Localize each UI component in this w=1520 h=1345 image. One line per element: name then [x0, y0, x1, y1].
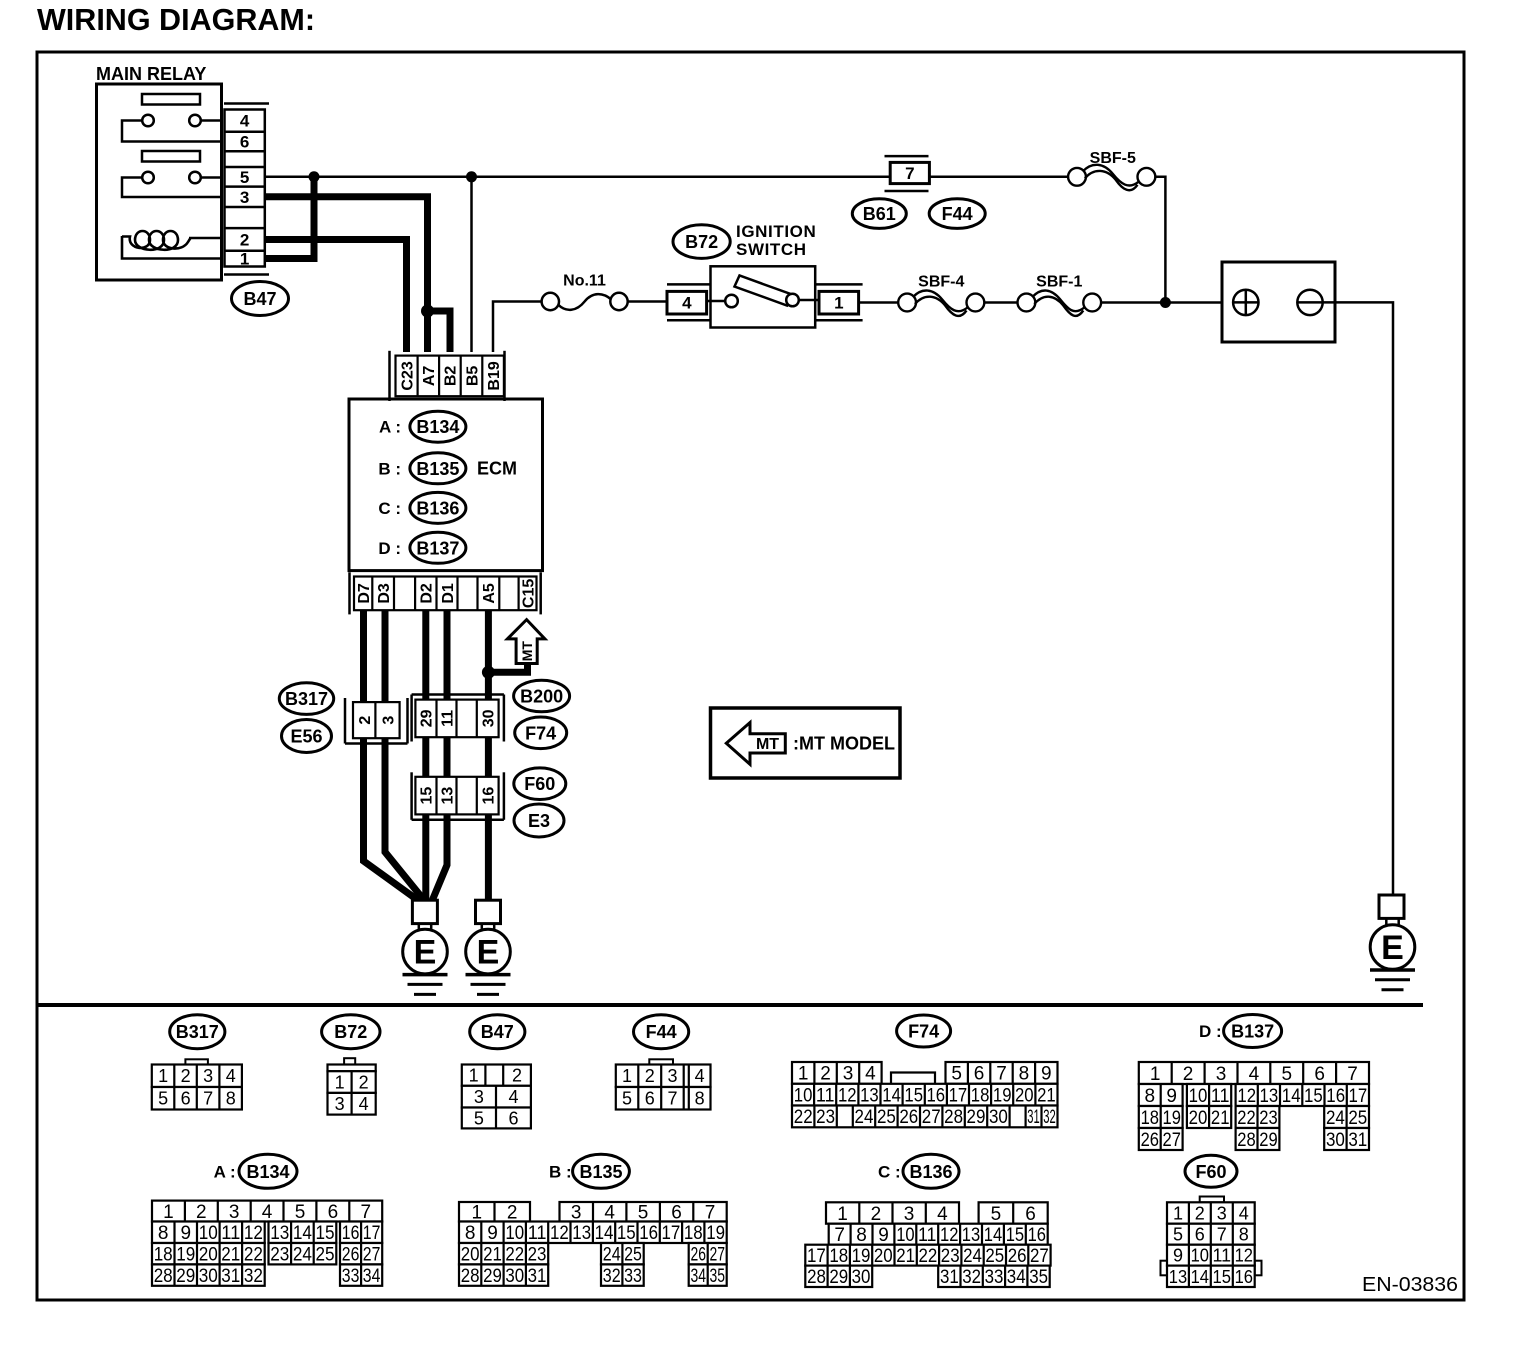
svg-text:14: 14 — [1282, 1086, 1301, 1107]
svg-text:2: 2 — [820, 1064, 831, 1085]
ground E middle — [476, 900, 501, 923]
svg-text:15: 15 — [617, 1223, 636, 1244]
svg-text:1: 1 — [1150, 1064, 1161, 1085]
pinout B136 connector — [826, 1202, 959, 1223]
svg-text:1: 1 — [798, 1064, 809, 1085]
svg-text:3: 3 — [1216, 1064, 1227, 1085]
ECM top connector shell — [388, 351, 391, 401]
svg-text:B137: B137 — [1231, 1022, 1274, 1042]
svg-text:9: 9 — [487, 1223, 498, 1244]
svg-text:14: 14 — [882, 1086, 901, 1107]
svg-text:D1: D1 — [440, 583, 457, 604]
connector pin 4 of ignition switch — [667, 283, 711, 286]
svg-text:EN-03836: EN-03836 — [1362, 1274, 1458, 1296]
wire D1 to ground E — [432, 610, 447, 901]
svg-text:B72: B72 — [334, 1022, 367, 1042]
svg-text:31: 31 — [221, 1266, 240, 1287]
svg-text:18: 18 — [829, 1246, 848, 1267]
pinout B137 connector — [1139, 1062, 1369, 1084]
svg-text:30: 30 — [1326, 1130, 1345, 1151]
svg-text:13: 13 — [1169, 1267, 1187, 1287]
svg-text:32: 32 — [603, 1266, 621, 1287]
svg-text:26: 26 — [690, 1245, 706, 1266]
svg-text:12: 12 — [1237, 1086, 1256, 1107]
ECM top connector strip C23 A7 B2 B5 B19 — [396, 356, 504, 397]
relay contact 1 terminals — [142, 115, 154, 127]
svg-text:15: 15 — [315, 1223, 334, 1244]
pinout F74 callout — [897, 1015, 951, 1047]
wire pin5 B+ line — [265, 176, 890, 179]
ground E right — [1379, 895, 1404, 918]
svg-text:20: 20 — [1189, 1108, 1208, 1129]
svg-text:16: 16 — [1028, 1225, 1046, 1246]
svg-text:20: 20 — [874, 1246, 893, 1267]
svg-text:SWITCH: SWITCH — [736, 240, 807, 259]
svg-text:21: 21 — [896, 1246, 915, 1267]
svg-text:A :: A : — [379, 418, 401, 437]
svg-text:B :: B : — [378, 459, 401, 478]
wire MT branch — [488, 665, 527, 672]
svg-text:16: 16 — [639, 1223, 658, 1244]
svg-text:29: 29 — [483, 1266, 502, 1287]
callout B200 — [514, 680, 570, 712]
svg-text:4: 4 — [695, 1066, 705, 1086]
svg-text:1: 1 — [834, 294, 843, 313]
relay contact 2 terminals — [142, 172, 154, 184]
svg-text:F60: F60 — [1195, 1162, 1226, 1182]
svg-text:34: 34 — [690, 1266, 706, 1287]
svg-text:11: 11 — [528, 1223, 547, 1244]
svg-text:A :: A : — [214, 1162, 236, 1181]
wire SBF-1 to battery — [1101, 301, 1222, 304]
svg-text:6: 6 — [1314, 1064, 1325, 1085]
svg-text:B317: B317 — [285, 689, 328, 709]
pinout B317 callout — [170, 1015, 225, 1049]
svg-text:SBF-1: SBF-1 — [1036, 274, 1082, 291]
connector pin 1 of ignition switch — [815, 283, 862, 286]
connector pin 7 in B+ line — [885, 155, 929, 158]
svg-text:3: 3 — [229, 1202, 240, 1223]
ignition switch contacts — [725, 295, 738, 308]
svg-text:28: 28 — [461, 1266, 480, 1287]
svg-text:B135: B135 — [416, 459, 459, 479]
svg-text:6: 6 — [645, 1089, 655, 1109]
svg-text:1: 1 — [163, 1202, 174, 1223]
svg-text:3: 3 — [474, 1087, 484, 1107]
svg-text:9: 9 — [1041, 1064, 1052, 1085]
svg-text:32: 32 — [244, 1266, 263, 1287]
svg-text:F74: F74 — [908, 1022, 939, 1042]
svg-text:5: 5 — [991, 1204, 1002, 1225]
svg-text:E: E — [477, 934, 500, 972]
pinout F44 callout — [634, 1015, 689, 1049]
svg-text:10: 10 — [1189, 1086, 1208, 1107]
svg-text:13: 13 — [439, 787, 456, 805]
ECM bottom connector shell — [348, 572, 351, 614]
callout B61 — [852, 199, 906, 229]
svg-text:5: 5 — [158, 1089, 168, 1109]
svg-text:B61: B61 — [863, 204, 896, 224]
svg-text:14: 14 — [293, 1223, 312, 1244]
connector B200/F74 pins 29 11 30 — [415, 700, 498, 738]
svg-text:22: 22 — [244, 1245, 263, 1266]
svg-text:4: 4 — [1239, 1204, 1249, 1224]
svg-text:4: 4 — [240, 112, 250, 131]
svg-text:B135: B135 — [579, 1162, 622, 1182]
svg-text:15: 15 — [1006, 1225, 1024, 1246]
svg-text:B136: B136 — [416, 498, 459, 518]
svg-text:19: 19 — [1163, 1108, 1181, 1129]
svg-text:9: 9 — [1173, 1246, 1183, 1266]
svg-text:13: 13 — [962, 1225, 980, 1246]
svg-text:14: 14 — [595, 1223, 614, 1244]
svg-text:4: 4 — [262, 1202, 273, 1223]
svg-text:B137: B137 — [416, 538, 459, 558]
svg-text:7: 7 — [996, 1064, 1007, 1085]
svg-text:25: 25 — [1348, 1108, 1367, 1129]
wire contact2 right to pin 5 — [200, 176, 222, 179]
wire D3 to ground E — [385, 610, 424, 900]
svg-text:D3: D3 — [376, 583, 393, 604]
svg-text:24: 24 — [963, 1246, 982, 1267]
svg-text:11: 11 — [816, 1086, 835, 1107]
pinout F60 connector — [1200, 1197, 1224, 1203]
svg-text:9: 9 — [878, 1225, 889, 1246]
svg-text:5: 5 — [474, 1108, 484, 1128]
svg-text:2: 2 — [871, 1204, 882, 1225]
wire battery to ground — [1335, 302, 1393, 895]
wire B+ to ECM B5 — [470, 177, 473, 352]
svg-text:MT: MT — [519, 641, 535, 662]
svg-text:21: 21 — [1037, 1086, 1056, 1107]
callout F60 — [514, 768, 566, 800]
wire D2 to ground E — [422, 610, 429, 900]
svg-text:20: 20 — [1015, 1086, 1034, 1107]
svg-text:D :: D : — [378, 539, 401, 558]
svg-text:24: 24 — [1326, 1108, 1345, 1129]
svg-text:4: 4 — [865, 1064, 876, 1085]
svg-text:2: 2 — [359, 1073, 369, 1093]
wire contact1 right to pin 4 — [200, 119, 222, 122]
svg-text:6: 6 — [240, 133, 249, 152]
svg-text:5: 5 — [1173, 1225, 1183, 1245]
svg-text:3: 3 — [335, 1094, 345, 1114]
svg-text:19: 19 — [852, 1246, 871, 1267]
svg-text:12: 12 — [838, 1086, 857, 1107]
svg-text:3: 3 — [667, 1066, 677, 1086]
svg-text:26: 26 — [1141, 1130, 1159, 1151]
callout F44 — [929, 199, 985, 229]
svg-text:3: 3 — [240, 188, 249, 207]
svg-text::MT MODEL: :MT MODEL — [793, 734, 895, 754]
wire switch contact to connector1 — [799, 299, 819, 302]
svg-text:10: 10 — [896, 1225, 914, 1246]
svg-text:28: 28 — [944, 1107, 963, 1128]
svg-text:D7: D7 — [356, 583, 373, 604]
svg-text:2: 2 — [1195, 1204, 1205, 1224]
svg-text:E56: E56 — [290, 727, 322, 747]
junction B5/B+ — [466, 171, 477, 182]
wire pin2 to ECM C23 — [265, 240, 407, 353]
svg-text:F44: F44 — [942, 204, 973, 224]
svg-text:A5: A5 — [481, 583, 498, 604]
relay contact 1 blade — [142, 94, 200, 105]
svg-text:18: 18 — [1141, 1108, 1159, 1129]
svg-text:F44: F44 — [646, 1022, 677, 1042]
svg-text:1: 1 — [837, 1204, 848, 1225]
svg-text:5: 5 — [240, 168, 249, 187]
relay connector pin strip — [225, 110, 265, 267]
svg-text:18: 18 — [154, 1245, 173, 1266]
svg-text:20: 20 — [461, 1245, 480, 1266]
wire SBF-4 to SBF-1 — [984, 301, 1017, 304]
svg-text:B72: B72 — [685, 232, 718, 252]
svg-text:25: 25 — [624, 1245, 642, 1266]
wire switch to SBF-4 — [859, 301, 899, 304]
svg-text:7: 7 — [1347, 1064, 1358, 1085]
MT model legend arrow — [726, 723, 785, 765]
svg-text:22: 22 — [505, 1245, 524, 1266]
svg-text:SBF-4: SBF-4 — [918, 274, 964, 291]
svg-text:7: 7 — [834, 1225, 845, 1246]
svg-text:C :: C : — [378, 499, 401, 518]
svg-text:15: 15 — [419, 787, 436, 805]
svg-text:6: 6 — [1025, 1204, 1036, 1225]
svg-text:23: 23 — [270, 1245, 289, 1266]
pinout F60 callout — [1185, 1155, 1237, 1187]
svg-text:32: 32 — [1043, 1107, 1056, 1128]
wire pin3 to ECM A7 — [265, 197, 428, 352]
svg-text:B134: B134 — [246, 1162, 289, 1182]
svg-text:14: 14 — [1191, 1267, 1209, 1287]
junction SBF-5/battery line — [1160, 297, 1171, 308]
svg-text:6: 6 — [974, 1064, 985, 1085]
wire pin1 to B+ junction — [265, 180, 314, 259]
relay coil L1 — [122, 231, 191, 250]
svg-text:1: 1 — [622, 1066, 632, 1086]
svg-text:2: 2 — [1183, 1064, 1194, 1085]
svg-text:B5: B5 — [464, 366, 481, 387]
svg-text:23: 23 — [816, 1107, 835, 1128]
svg-text:20: 20 — [199, 1245, 218, 1266]
svg-text:34: 34 — [1007, 1267, 1026, 1288]
junction pin1/B+ — [309, 171, 320, 182]
MT model legend box — [711, 708, 901, 778]
svg-text:6: 6 — [1195, 1225, 1205, 1245]
svg-text:8: 8 — [856, 1225, 867, 1246]
svg-text:C15: C15 — [520, 579, 537, 608]
svg-text:32: 32 — [962, 1267, 981, 1288]
ECM bottom connector strip D7 D3 D2 D1 A5 C15 — [354, 577, 537, 611]
svg-text:10: 10 — [199, 1223, 218, 1244]
callout E56 — [282, 720, 332, 753]
connector B317/E56 shell — [344, 698, 347, 744]
svg-text:16: 16 — [342, 1223, 360, 1244]
svg-text:21: 21 — [483, 1245, 502, 1266]
pinout B47 connector — [462, 1065, 531, 1086]
pinout B47 callout — [470, 1015, 525, 1049]
svg-text:8: 8 — [1019, 1064, 1030, 1085]
svg-text:10: 10 — [794, 1086, 813, 1107]
svg-text:6: 6 — [328, 1202, 339, 1223]
separator line — [37, 1003, 1423, 1007]
svg-text:B134: B134 — [416, 417, 459, 437]
svg-text:IGNITION: IGNITION — [736, 222, 816, 241]
svg-text:9: 9 — [181, 1223, 192, 1244]
svg-text:ECM: ECM — [477, 459, 517, 479]
svg-text:10: 10 — [1191, 1246, 1209, 1266]
svg-text:5: 5 — [951, 1064, 962, 1085]
callout B317 — [279, 683, 333, 715]
svg-text:23: 23 — [528, 1245, 547, 1266]
svg-text:F60: F60 — [524, 774, 555, 794]
junction A5/MT — [482, 666, 495, 679]
svg-text:1: 1 — [335, 1073, 345, 1093]
svg-text:E3: E3 — [528, 811, 550, 831]
pinout B134 connector — [152, 1201, 382, 1222]
svg-text:E: E — [414, 934, 437, 972]
svg-text:3: 3 — [380, 716, 397, 725]
ignition switch callout B72 — [673, 225, 730, 259]
svg-text:11: 11 — [918, 1225, 936, 1246]
svg-text:31: 31 — [940, 1267, 959, 1288]
svg-text:10: 10 — [505, 1223, 524, 1244]
svg-text:16: 16 — [1235, 1267, 1253, 1287]
svg-text:31: 31 — [1027, 1107, 1039, 1128]
svg-text:34: 34 — [363, 1266, 381, 1287]
svg-text:4: 4 — [508, 1087, 518, 1107]
svg-text:B47: B47 — [243, 289, 276, 309]
svg-text:27: 27 — [363, 1245, 381, 1266]
pinout B135 connector — [459, 1202, 530, 1222]
pinout B72 connector — [344, 1058, 355, 1064]
svg-text:15: 15 — [904, 1086, 923, 1107]
connector B317/E56 pins 2 3 — [353, 702, 400, 738]
svg-text:1: 1 — [469, 1066, 479, 1086]
svg-text:22: 22 — [919, 1246, 938, 1267]
svg-text:MT: MT — [756, 736, 779, 753]
svg-text:1: 1 — [1173, 1204, 1183, 1224]
svg-text:30: 30 — [852, 1267, 871, 1288]
svg-text:11: 11 — [1211, 1086, 1230, 1107]
svg-text:21: 21 — [221, 1245, 240, 1266]
svg-text:21: 21 — [1211, 1108, 1230, 1129]
svg-text:B47: B47 — [481, 1022, 514, 1042]
svg-text:11: 11 — [439, 710, 456, 727]
svg-text:26: 26 — [899, 1107, 918, 1128]
svg-text:23: 23 — [1259, 1108, 1277, 1129]
ground E left — [412, 900, 437, 923]
svg-text:31: 31 — [528, 1266, 547, 1287]
svg-text:12: 12 — [940, 1225, 958, 1246]
svg-text:25: 25 — [315, 1245, 334, 1266]
svg-text:31: 31 — [1348, 1130, 1367, 1151]
svg-text:B136: B136 — [909, 1162, 952, 1182]
svg-text:11: 11 — [1213, 1246, 1232, 1266]
svg-text:B2: B2 — [443, 366, 460, 387]
svg-text:17: 17 — [662, 1223, 681, 1244]
svg-text:29: 29 — [967, 1107, 986, 1128]
wire branch to ECM B2 — [428, 311, 451, 352]
relay contact 2 blade — [142, 151, 200, 162]
svg-text:14: 14 — [984, 1225, 1003, 1246]
wire fuse No.11 to connector 4 — [628, 300, 667, 303]
svg-text:2: 2 — [645, 1066, 655, 1086]
svg-text:8: 8 — [158, 1223, 169, 1244]
svg-text:WIRING DIAGRAM:: WIRING DIAGRAM: — [37, 2, 315, 37]
svg-text:26: 26 — [342, 1245, 360, 1266]
svg-text:6: 6 — [508, 1108, 518, 1128]
svg-text:19: 19 — [993, 1086, 1012, 1107]
ignition switch SW1 box — [711, 266, 816, 327]
svg-text:12: 12 — [244, 1223, 263, 1244]
relay K1 box — [97, 84, 222, 280]
svg-text:F74: F74 — [525, 723, 556, 743]
wire connector4 to switch contact — [707, 300, 726, 303]
svg-text:1: 1 — [158, 1066, 168, 1086]
svg-text:4: 4 — [937, 1204, 948, 1225]
wire SBF-5 to corner — [1155, 177, 1165, 303]
svg-text:B200: B200 — [520, 687, 563, 707]
svg-text:4: 4 — [1249, 1064, 1260, 1085]
svg-text:15: 15 — [1304, 1086, 1323, 1107]
svg-text:A7: A7 — [421, 366, 438, 387]
svg-text:16: 16 — [927, 1086, 946, 1107]
svg-text:12: 12 — [550, 1223, 569, 1244]
svg-text:7: 7 — [1217, 1225, 1227, 1245]
svg-text:28: 28 — [154, 1266, 173, 1287]
svg-text:3: 3 — [904, 1204, 915, 1225]
junction A7/B2 split — [421, 305, 434, 318]
wire coil left to pin 1 — [122, 236, 222, 259]
svg-text:3: 3 — [1217, 1204, 1227, 1224]
svg-text:MAIN RELAY: MAIN RELAY — [96, 64, 206, 84]
svg-text:5: 5 — [1282, 1064, 1293, 1085]
svg-text:3: 3 — [843, 1064, 854, 1085]
relay connector shell — [224, 102, 269, 105]
svg-text:C :: C : — [878, 1162, 901, 1181]
svg-text:35: 35 — [1029, 1267, 1048, 1288]
connector F60/E3 shell — [410, 772, 413, 820]
pinout F44 connector — [649, 1059, 673, 1065]
pinout F74 connector — [792, 1062, 882, 1084]
svg-text:2: 2 — [196, 1202, 207, 1223]
svg-text:29: 29 — [1259, 1130, 1277, 1151]
svg-text:26: 26 — [1008, 1246, 1027, 1267]
svg-text:22: 22 — [794, 1107, 813, 1128]
svg-text:29: 29 — [176, 1266, 195, 1287]
svg-text:33: 33 — [342, 1266, 360, 1287]
svg-text:4: 4 — [226, 1066, 236, 1086]
svg-text:13: 13 — [1260, 1086, 1279, 1107]
svg-text:17: 17 — [363, 1223, 381, 1244]
svg-text:8: 8 — [695, 1089, 705, 1109]
svg-text:19: 19 — [706, 1223, 725, 1244]
svg-text:12: 12 — [1235, 1246, 1253, 1266]
svg-text:5: 5 — [622, 1089, 632, 1109]
wire contact2 left to pin 3 — [122, 178, 222, 198]
svg-text:18: 18 — [684, 1223, 703, 1244]
svg-text:6: 6 — [181, 1089, 191, 1109]
callout E3 — [514, 804, 564, 837]
svg-text:17: 17 — [949, 1086, 968, 1107]
svg-text:27: 27 — [922, 1107, 941, 1128]
svg-text:C23: C23 — [399, 361, 416, 390]
svg-text:29: 29 — [419, 709, 436, 727]
svg-text:33: 33 — [985, 1267, 1004, 1288]
svg-text:30: 30 — [481, 709, 498, 727]
svg-text:13: 13 — [270, 1223, 289, 1244]
